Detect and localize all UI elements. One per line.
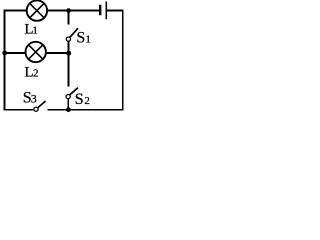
wire L2 branch right [46,52,69,54]
svg-text:2: 2 [84,95,90,107]
lamp L2 [26,42,46,62]
svg-text:S: S [75,91,84,108]
svg-text:3: 3 [31,92,37,106]
battery cell [100,2,106,20]
node junction middle [66,51,71,56]
wire bottom-left segment [5,109,34,111]
switch S3 [34,101,46,111]
svg-text:S: S [76,29,85,46]
node junction bottom [66,107,71,112]
wire top-left segment [5,10,27,12]
svg-text:2: 2 [33,67,39,79]
wire right vertical [122,10,124,111]
wire L2 branch left [5,52,26,54]
lamp L1 [27,0,47,20]
svg-text:1: 1 [32,25,38,37]
switch S2 [66,88,78,99]
wire middle between S1 and S2 [67,41,69,86]
node junction top [66,8,71,13]
wire top-middle segment [47,10,99,12]
switch S1 [66,28,78,41]
wire top-right segment [106,10,123,12]
wire bottom-right segment [47,109,123,111]
node junction left [2,51,7,56]
wire middle stub above S1 [67,11,69,25]
wire left vertical [4,10,6,111]
svg-text:1: 1 [85,33,91,45]
wire middle below S2 [67,99,69,110]
